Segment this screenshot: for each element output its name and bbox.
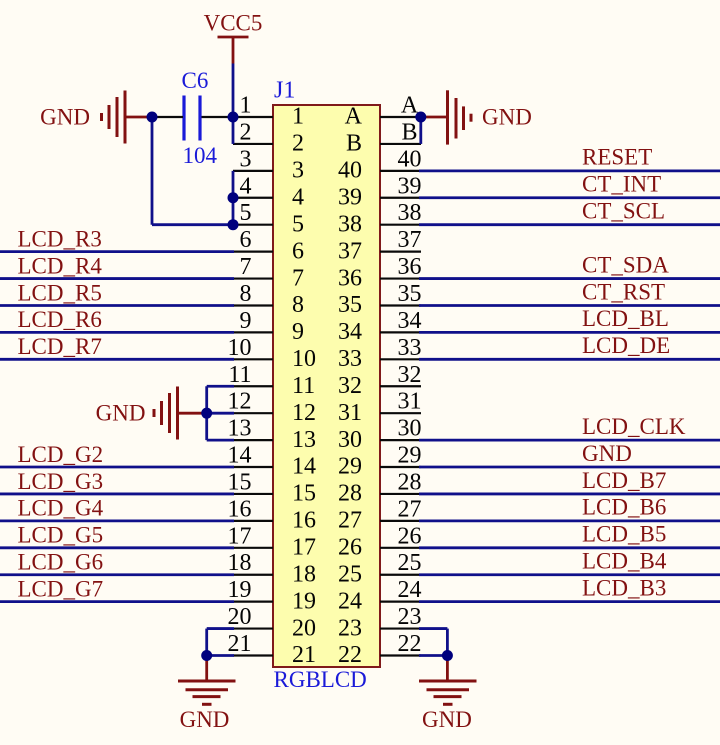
svg-text:9: 9 [292,319,304,345]
svg-text:14: 14 [228,443,252,469]
svg-text:30: 30 [338,427,362,453]
wire VCC5 to pin 1 [232,64,235,118]
designator J1 [274,78,295,104]
wire net LCD_G5 (left) [0,546,234,549]
wire net LCD_R3 (left) [0,250,234,253]
svg-text:8: 8 [292,292,304,318]
svg-text:28: 28 [398,469,422,495]
svg-text:5: 5 [292,211,304,237]
ground symbol GND (middle left) [96,387,178,440]
svg-text:27: 27 [338,508,362,534]
svg-text:LCD_G6: LCD_G6 [18,550,104,575]
svg-text:LCD_G5: LCD_G5 [18,523,104,548]
svg-text:7: 7 [292,265,304,291]
ground symbol GND (top right) [448,90,532,144]
svg-text:CT_INT: CT_INT [582,172,661,197]
node pin 12 [201,408,212,419]
net label GND [582,441,632,466]
wire pin 20 stub extension [207,627,234,630]
pin A of J1 (right, number A) [345,93,421,130]
svg-text:18: 18 [292,561,316,587]
svg-text:33: 33 [398,335,422,361]
part name RGBLCD [274,667,367,692]
svg-text:LCD_R5: LCD_R5 [18,280,102,305]
svg-text:2: 2 [240,119,252,145]
wire pin 21 stub extension [207,654,234,657]
wire net LCD_R7 (left) [0,358,234,361]
svg-text:LCD_DE: LCD_DE [582,333,670,358]
wire net CT_RST (right) [419,304,720,307]
svg-text:RESET: RESET [582,145,652,170]
pin 25 of J1 (right, number 25) [338,550,422,587]
pin 5 of J1 (left, number 5) [233,200,304,237]
wire net CT_SDA (right) [419,277,720,280]
svg-text:9: 9 [240,308,252,334]
node pin 21 [201,650,212,661]
svg-text:GND: GND [582,441,632,466]
svg-text:LCD_R7: LCD_R7 [18,334,102,359]
svg-text:27: 27 [398,496,422,522]
node GND/C6 (top left) [147,112,158,123]
svg-text:4: 4 [240,173,252,199]
wire net RESET (right) [419,169,720,172]
svg-text:31: 31 [398,389,422,415]
svg-text:17: 17 [292,535,316,561]
pin 4 of J1 (left, number 4) [233,173,304,210]
pin 15 of J1 (left, number 15) [228,469,317,506]
svg-text:8: 8 [240,281,252,307]
wire net CT_INT (right) [419,196,720,199]
svg-text:22: 22 [338,642,362,668]
wire net LCD_R6 (left) [0,331,234,334]
wire net GND (right) [419,466,720,469]
svg-text:37: 37 [338,238,362,264]
pin 18 of J1 (left, number 18) [228,550,317,587]
pin 38 of J1 (right, number 38) [338,200,422,237]
wire net LCD_B4 (right) [419,573,720,576]
capacitor C6 value 104 [182,68,218,168]
svg-text:3: 3 [292,158,304,184]
connector J1 body [273,105,380,667]
svg-text:29: 29 [398,443,422,469]
pin 27 of J1 (right, number 27) [338,496,422,533]
svg-text:VCC5: VCC5 [204,11,263,36]
wire bracket pins A-B [419,117,422,144]
svg-text:13: 13 [292,427,316,453]
svg-text:29: 29 [338,454,362,480]
svg-text:B: B [346,131,362,157]
net label LCD_R4 [18,253,103,278]
wire ground to pin 12 node [178,412,207,415]
svg-text:35: 35 [398,281,422,307]
pin 7 of J1 (left, number 7) [233,254,304,291]
svg-text:LCD_B6: LCD_B6 [582,495,666,520]
pin 23 of J1 (right, number 23) [338,604,422,641]
svg-text:J1: J1 [274,78,295,104]
svg-text:16: 16 [292,508,316,534]
pin 10 of J1 (left, number 10) [228,335,317,372]
svg-text:34: 34 [338,319,362,345]
svg-text:GND: GND [96,401,146,426]
wire net LCD_B3 (right) [419,600,720,603]
node pin 5 [228,219,239,230]
svg-text:20: 20 [228,604,252,630]
svg-text:36: 36 [398,254,422,280]
wire net LCD_G6 (left) [0,573,234,576]
svg-text:25: 25 [398,550,422,576]
wire net LCD_R4 (left) [0,277,234,280]
svg-text:CT_SDA: CT_SDA [582,252,669,277]
wire pin 13 stub extension [207,439,234,442]
svg-text:32: 32 [338,373,362,399]
wire pin 21 node to ground [205,656,208,682]
svg-text:RGBLCD: RGBLCD [274,667,367,692]
svg-text:4: 4 [292,184,304,210]
svg-text:LCD_B5: LCD_B5 [582,522,666,547]
svg-text:36: 36 [338,265,362,291]
net label LCD_G5 [18,523,104,548]
svg-text:34: 34 [398,308,422,334]
wire C6 right plate to pin1 node [202,116,234,118]
wire net LCD_G4 (left) [0,519,234,522]
pin B of J1 (right, number B) [346,119,421,156]
svg-text:C6: C6 [182,68,209,93]
pin 31 of J1 (right, number 31) [338,389,422,426]
wire bracket pins 11-13 [205,386,208,440]
svg-text:10: 10 [292,346,316,372]
pin 21 of J1 (left, number 21) [228,631,317,668]
wire net LCD_G3 (left) [0,493,234,496]
pin 30 of J1 (right, number 30) [338,416,422,453]
net label LCD_G6 [18,550,104,575]
svg-text:GND: GND [482,105,532,130]
svg-text:21: 21 [292,642,316,668]
pin 19 of J1 (left, number 19) [228,577,317,614]
svg-text:3: 3 [240,146,252,172]
pin 3 of J1 (left, number 3) [233,146,304,183]
svg-text:40: 40 [398,146,422,172]
node pin A [415,112,426,123]
svg-text:24: 24 [338,588,362,614]
svg-text:LCD_G4: LCD_G4 [18,496,104,521]
pin 12 of J1 (left, number 12) [228,389,317,426]
svg-text:13: 13 [228,416,252,442]
svg-text:LCD_G2: LCD_G2 [18,442,104,467]
ground symbol GND (top left) [40,91,125,144]
node pin 22 [442,650,453,661]
pin 24 of J1 (right, number 24) [338,577,422,614]
net label CT_SDA [582,252,669,277]
net label LCD_R7 [18,334,102,359]
pin 6 of J1 (left, number 6) [233,227,304,264]
svg-text:1: 1 [292,104,304,130]
svg-text:15: 15 [292,481,316,507]
pin 32 of J1 (right, number 32) [338,362,422,399]
svg-text:LCD_R6: LCD_R6 [18,307,102,332]
net label LCD_R5 [18,280,102,305]
svg-text:LCD_CLK: LCD_CLK [582,414,686,439]
wire net LCD_B6 (right) [419,519,720,522]
net label RESET [582,145,652,170]
pin 9 of J1 (left, number 9) [233,308,304,345]
wire net LCD_BL (right) [419,331,720,334]
wire net LCD_CLK (right) [419,439,720,442]
net label LCD_B5 [582,522,666,547]
svg-text:33: 33 [338,346,362,372]
svg-text:18: 18 [228,550,252,576]
svg-text:1: 1 [240,93,252,119]
pin 14 of J1 (left, number 14) [228,443,317,480]
wire net LCD_G7 (left) [0,600,234,603]
pin 26 of J1 (right, number 26) [338,523,422,560]
svg-text:20: 20 [292,615,316,641]
svg-text:6: 6 [292,238,304,264]
wire net LCD_DE (right) [419,358,720,361]
svg-text:LCD_B4: LCD_B4 [582,549,667,574]
wire bracket pins 20-21 [205,629,208,656]
svg-text:19: 19 [228,577,252,603]
pin 17 of J1 (left, number 17) [228,523,317,560]
net label LCD_CLK [582,414,686,439]
net label LCD_G3 [18,469,104,494]
svg-text:LCD_G3: LCD_G3 [18,469,104,494]
svg-text:35: 35 [338,292,362,318]
svg-text:32: 32 [398,362,422,388]
net label LCD_G7 [18,576,104,601]
pin 20 of J1 (left, number 20) [228,604,317,641]
pin 16 of J1 (left, number 16) [228,496,317,533]
net label LCD_DE [582,333,670,358]
pin 40 of J1 (right, number 40) [338,146,422,183]
net label CT_SCL [582,199,665,224]
svg-text:LCD_R3: LCD_R3 [18,226,102,251]
svg-text:23: 23 [338,615,362,641]
net label LCD_B3 [582,575,666,600]
net label CT_INT [582,172,661,197]
svg-text:40: 40 [338,158,362,184]
pin 35 of J1 (right, number 35) [338,281,422,318]
wire pin 22 node to ground [446,656,449,682]
net label LCD_R6 [18,307,102,332]
wire pin1 junction down to pin 2 [232,117,235,144]
power symbol VCC5 [204,11,263,64]
net label LCD_G4 [18,496,104,521]
net label CT_RST [582,279,665,304]
pin 39 of J1 (right, number 39) [338,173,422,210]
wire pin 12 stub extension [207,412,234,415]
svg-text:25: 25 [338,561,362,587]
svg-text:2: 2 [292,131,304,157]
svg-text:11: 11 [292,373,315,399]
svg-text:38: 38 [338,211,362,237]
node pin 4 [228,192,239,203]
svg-text:37: 37 [398,227,422,253]
svg-text:5: 5 [240,200,252,226]
svg-text:22: 22 [398,631,422,657]
pin 37 of J1 (right, number 37) [338,227,422,264]
svg-text:10: 10 [228,335,252,361]
wire left rail to pin 5 [152,223,233,226]
svg-text:6: 6 [240,227,252,253]
pin 28 of J1 (right, number 28) [338,469,422,506]
wire pin 11 stub extension [207,385,234,388]
svg-text:30: 30 [398,416,422,442]
wire net LCD_G2 (left) [0,466,234,469]
wire net CT_SCL (right) [419,223,720,226]
net label LCD_BL [582,306,669,331]
net label LCD_R3 [18,226,102,251]
svg-text:LCD_BL: LCD_BL [582,306,669,331]
svg-text:19: 19 [292,588,316,614]
wire pin 23 stub extension [419,627,447,630]
net label LCD_B4 [582,549,667,574]
pin 11 of J1 (left, number 11) [228,362,315,399]
svg-text:LCD_B3: LCD_B3 [582,575,666,600]
svg-text:24: 24 [398,577,422,603]
svg-text:14: 14 [292,454,316,480]
svg-text:16: 16 [228,496,252,522]
svg-text:12: 12 [292,400,316,426]
pin 8 of J1 (left, number 8) [233,281,304,318]
pin 1 of J1 (left, number 1) [233,93,304,130]
wire bracket pins 23-22 [446,629,449,656]
svg-text:26: 26 [338,535,362,561]
node VCC5/pin1 [228,112,239,123]
pin 2 of J1 (left, number 2) [233,119,304,156]
pin 22 of J1 (right, number 22) [338,631,422,668]
svg-text:23: 23 [398,604,422,630]
pin 34 of J1 (right, number 34) [338,308,422,345]
svg-text:39: 39 [338,184,362,210]
svg-text:38: 38 [398,200,422,226]
wire net LCD_B5 (right) [419,546,720,549]
svg-text:104: 104 [183,143,218,168]
wire pin 22 stub extension [419,654,447,657]
svg-text:11: 11 [228,362,251,388]
svg-text:GND: GND [40,105,90,130]
pin 13 of J1 (left, number 13) [228,416,317,453]
net label LCD_B7 [582,468,666,493]
svg-text:A: A [345,104,363,130]
svg-text:LCD_G7: LCD_G7 [18,576,104,601]
svg-text:GND: GND [422,707,472,732]
ground symbol GND (bottom left) [178,681,236,732]
svg-text:17: 17 [228,523,252,549]
wire node down left rail [151,117,154,225]
svg-text:LCD_B7: LCD_B7 [582,468,666,493]
wire GND node to C6 left plate [152,116,183,118]
pin 29 of J1 (right, number 29) [338,443,422,480]
svg-text:21: 21 [228,631,252,657]
svg-text:39: 39 [398,173,422,199]
svg-text:31: 31 [338,400,362,426]
wire pin A node to ground [421,116,446,119]
pin 33 of J1 (right, number 33) [338,335,422,372]
svg-text:12: 12 [228,389,252,415]
svg-text:28: 28 [338,481,362,507]
svg-text:15: 15 [228,469,252,495]
ground symbol GND (bottom right) [419,681,477,732]
svg-text:7: 7 [240,254,252,280]
svg-text:LCD_R4: LCD_R4 [18,253,103,278]
svg-text:26: 26 [398,523,422,549]
pin 36 of J1 (right, number 36) [338,254,422,291]
wire bracket pins 3-5 [232,171,235,225]
wire net LCD_B7 (right) [419,493,720,496]
svg-text:CT_SCL: CT_SCL [582,199,665,224]
wire net LCD_R5 (left) [0,304,234,307]
wire ground to node (top left) [125,116,152,119]
net label LCD_B6 [582,495,666,520]
net label LCD_G2 [18,442,104,467]
svg-text:CT_RST: CT_RST [582,279,665,304]
svg-text:B: B [401,119,417,145]
svg-text:GND: GND [180,707,230,732]
